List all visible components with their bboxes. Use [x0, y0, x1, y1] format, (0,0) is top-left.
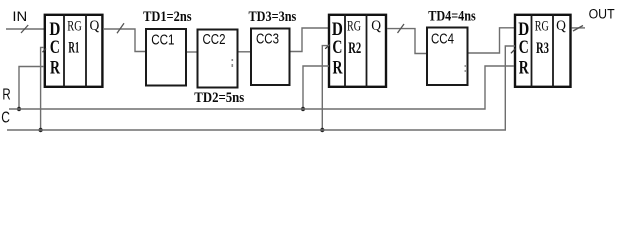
svg-text:TD3=3ns: TD3=3ns	[249, 9, 297, 25]
wire CC1 to CC2	[187, 51, 197, 53]
bus slash on IN wire	[21, 25, 28, 33]
svg-text:TD1=2ns: TD1=2ns	[143, 9, 192, 25]
svg-text:RG: RG	[67, 19, 82, 35]
scan artifact near CC4	[465, 65, 467, 72]
register R1 box	[45, 14, 103, 88]
svg-text:R3: R3	[536, 40, 549, 57]
junction dot R1 C tap	[38, 128, 42, 132]
wire CC3 output to R2 D input	[291, 28, 329, 52]
scan artifact near CC2	[232, 59, 234, 67]
register R2 box	[329, 14, 386, 88]
wire C bus tap to R2 C input	[322, 46, 329, 130]
svg-text:TD2=5ns: TD2=5ns	[194, 90, 244, 106]
wire CC4 output to R3 D input	[469, 28, 515, 53]
svg-text:TD4=4ns: TD4=4ns	[428, 8, 476, 24]
svg-text:C: C	[50, 37, 60, 58]
junction dot R1 R tap	[17, 107, 21, 111]
svg-text:C: C	[1, 109, 10, 126]
svg-text:Q: Q	[371, 18, 381, 34]
svg-text:C: C	[332, 37, 342, 58]
wire IN to R1 D input	[6, 28, 44, 30]
svg-text:CC3: CC3	[256, 31, 279, 48]
dynamic clock tick (R3 C input)	[511, 49, 516, 54]
wire C bus tap to R1 C input	[41, 47, 44, 130]
wire R1 Q output to CC1 input	[103, 29, 145, 52]
svg-text:R: R	[2, 87, 10, 104]
svg-text:CC2: CC2	[203, 31, 226, 48]
svg-text:RG: RG	[347, 19, 361, 35]
junction dot R2 R tap	[301, 107, 305, 111]
svg-text:R1: R1	[68, 39, 79, 56]
junction dot R2 C tap	[320, 128, 324, 132]
R bus horizontal wire	[9, 66, 514, 109]
svg-text:R: R	[333, 57, 343, 78]
svg-text:R: R	[50, 57, 60, 78]
combinational block CC4	[427, 28, 468, 86]
svg-text:Q: Q	[90, 18, 100, 34]
svg-text:Q: Q	[556, 18, 566, 34]
wire R2 Q output to CC4 input	[387, 29, 426, 54]
svg-text:R: R	[519, 57, 529, 78]
bus slash on OUT wire	[573, 26, 583, 32]
svg-text:OUT: OUT	[589, 7, 615, 22]
combinational block CC1	[146, 29, 186, 86]
svg-text:CC1: CC1	[151, 31, 174, 48]
wire R bus tap to R2 R input	[303, 66, 329, 109]
combinational block CC3	[251, 29, 290, 86]
bus slash on R1 Q wire	[117, 23, 124, 33]
svg-text:RG: RG	[535, 19, 549, 35]
wire R bus tap to R1 R input	[19, 67, 44, 110]
C bus horizontal wire	[7, 46, 515, 130]
svg-text:CC4: CC4	[431, 31, 454, 48]
dynamic clock tick (R2 C input)	[325, 44, 330, 49]
register R3 box	[515, 14, 571, 88]
bus slash on R2 Q wire	[398, 24, 405, 33]
dynamic clock tick (R1 C input)	[43, 49, 47, 53]
combinational block CC2	[198, 30, 238, 88]
wire CC2 to CC3	[239, 51, 251, 53]
svg-text:IN: IN	[12, 8, 27, 24]
svg-text:C: C	[519, 37, 529, 58]
svg-text:R2: R2	[348, 40, 361, 57]
wire R3 Q output to OUT	[572, 27, 586, 29]
